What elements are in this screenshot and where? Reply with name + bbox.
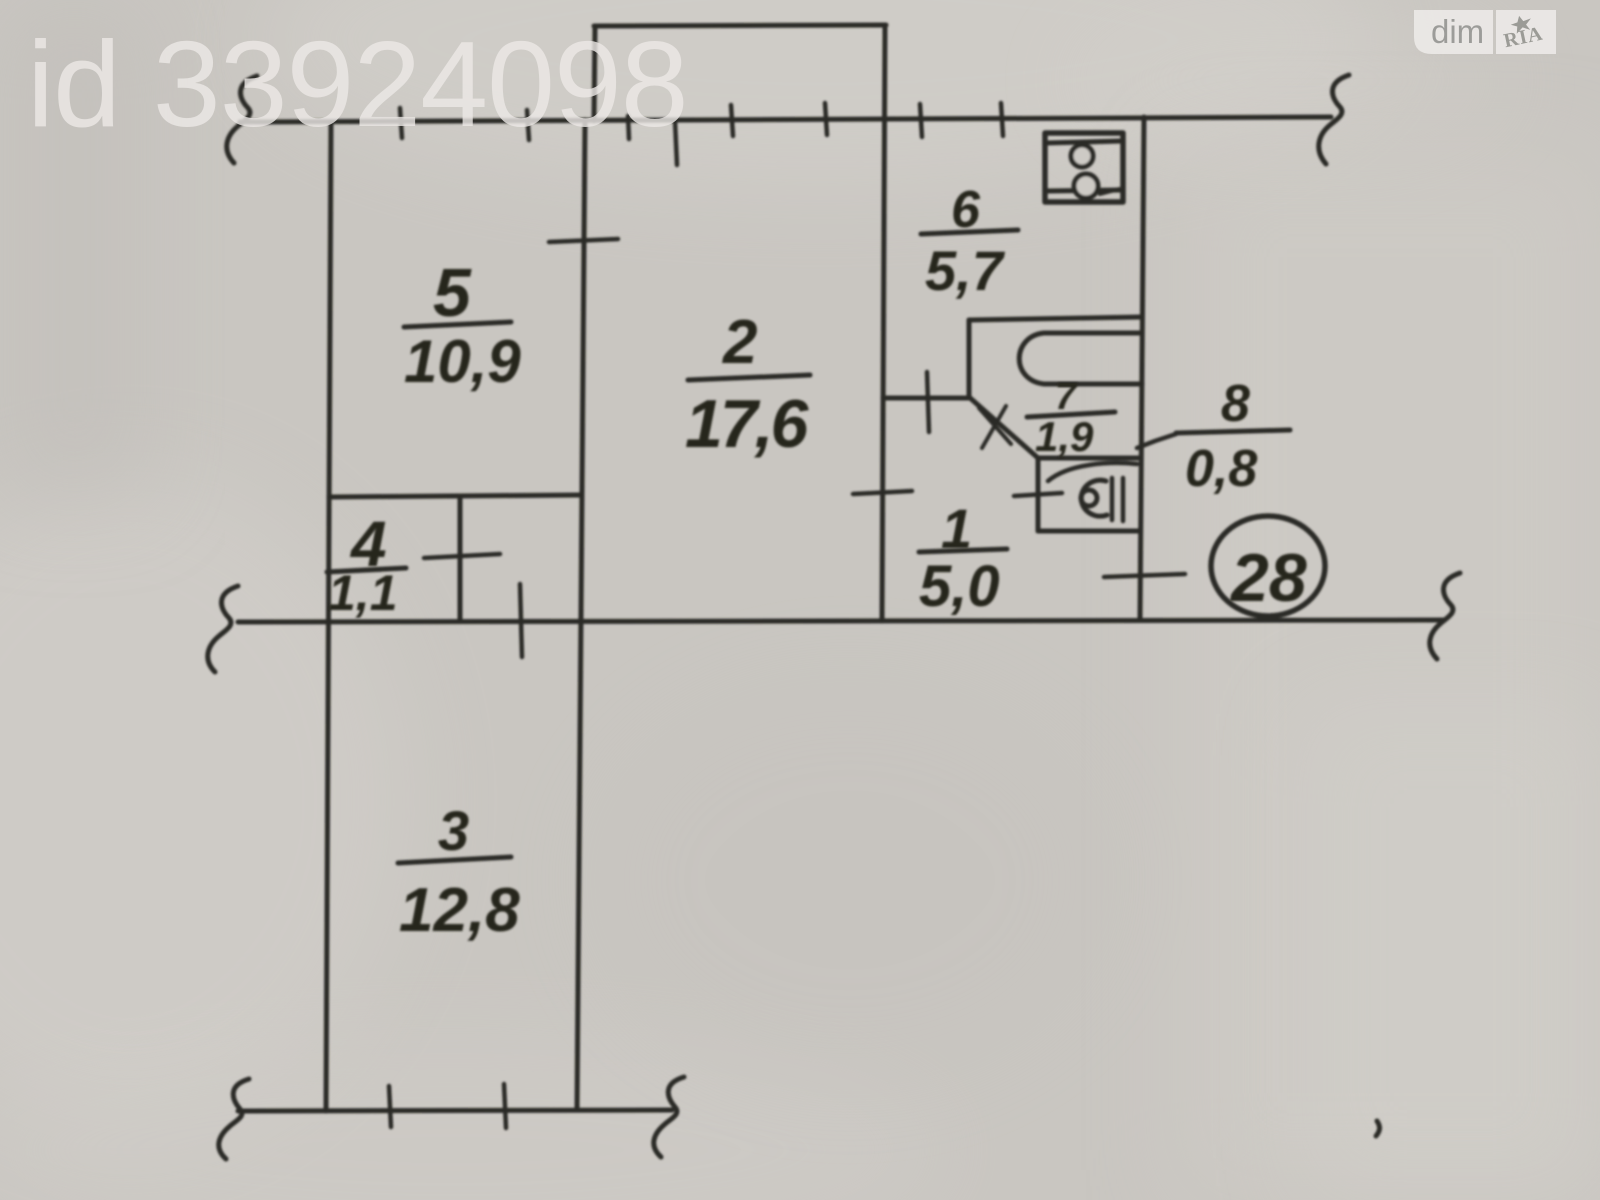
svg-text:5: 5	[433, 255, 472, 331]
svg-text:28: 28	[1229, 540, 1307, 616]
svg-text:8: 8	[1221, 375, 1250, 433]
svg-text:3: 3	[438, 799, 469, 862]
svg-text:id 33924098: id 33924098	[27, 16, 688, 152]
svg-text:1,1: 1,1	[328, 565, 398, 621]
svg-text:5,0: 5,0	[919, 554, 1000, 619]
svg-text:0,8: 0,8	[1185, 440, 1257, 498]
svg-text:12,8: 12,8	[399, 876, 520, 945]
svg-text:17,6: 17,6	[685, 386, 810, 462]
svg-text:5,7: 5,7	[925, 239, 1006, 302]
svg-text:1,9: 1,9	[1035, 413, 1094, 460]
svg-text:6: 6	[951, 181, 981, 239]
svg-text:dim: dim	[1431, 13, 1484, 50]
svg-text:1: 1	[941, 497, 972, 560]
svg-text:10,9: 10,9	[404, 328, 521, 395]
svg-text:7: 7	[1055, 376, 1078, 418]
svg-text:2: 2	[722, 308, 757, 377]
